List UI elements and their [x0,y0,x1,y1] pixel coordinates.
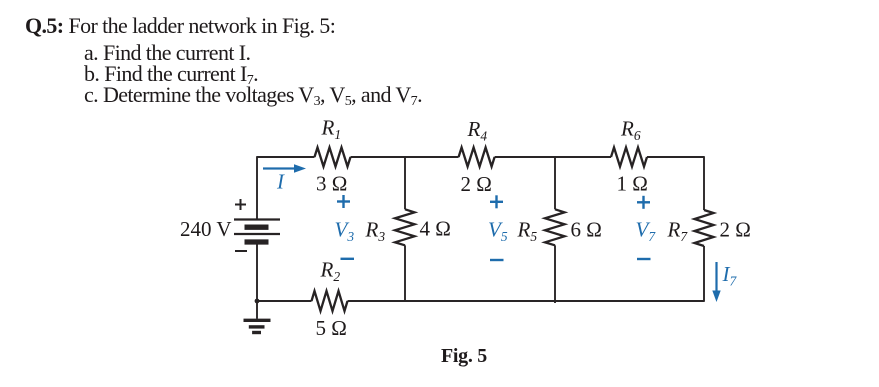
label minus of battery [235,250,247,252]
battery E (240 V source) [234,220,280,243]
svg-text:2 Ω: 2 Ω [720,218,751,242]
wire R3 branch lower [404,245,406,301]
wire top rail node B to top-right corner [647,156,704,158]
svg-text:4 Ω: 4 Ω [420,217,451,241]
label plus of V7 [637,196,650,209]
resistor R4 [459,148,495,167]
svg-text:5 Ω: 5 Ω [316,316,347,340]
wire left branch lower (source bottom to ground junction) [256,245,258,302]
problem statement line 1 [25,15,335,37]
wire bottom rail left of R2 [257,300,312,302]
resistor R6 [611,148,647,167]
label minus of V3 [341,258,355,260]
wire R5 branch lower [554,245,556,303]
figure caption [441,345,487,367]
svg-text:I: I [276,170,285,194]
svg-text:1 Ω: 1 Ω [617,172,648,196]
wire R3 branch upper [404,157,406,209]
svg-text:3 Ω: 3 Ω [316,172,347,196]
svg-text:V5: V5 [488,218,508,245]
node: ground junction dot [255,299,260,304]
svg-text:R5: R5 [517,218,538,245]
wire R5 branch upper [554,157,556,209]
wire right branch upper [703,156,705,210]
svg-text:240 V: 240 V [180,217,232,241]
wire top rail R1 to node A [351,156,459,158]
resistor R2 [312,291,348,311]
svg-text:V7: V7 [636,218,657,245]
label plus of battery [235,199,246,210]
wire ground stem [256,301,258,319]
svg-text:R3: R3 [365,218,386,245]
wire top rail left segment [257,156,315,158]
label minus of V7 [637,258,651,260]
svg-text:R2: R2 [320,258,341,285]
svg-text:V3: V3 [335,218,355,245]
resistor R3 [395,209,415,245]
svg-text:R7: R7 [667,218,689,245]
label plus of V5 [490,195,503,208]
resistor R7 [695,210,714,246]
wire top rail node A to node B [495,156,611,158]
svg-text:R4: R4 [467,117,488,144]
svg-text:R1: R1 [321,116,342,143]
current arrow I7 [712,262,720,302]
label plus of V3 [337,195,350,208]
svg-text:R6: R6 [620,117,641,144]
wire right branch lower [703,246,705,302]
resistor R1 [315,148,351,167]
problem item c [84,84,422,106]
wire left branch upper (source top) [256,156,258,219]
problem item a [84,42,250,64]
label minus of V5 [490,259,504,261]
svg-text:I7: I7 [722,262,738,289]
ground [244,320,271,332]
wire bottom rail right of R2 [348,300,705,302]
problem item b [84,63,258,85]
resistor R5 [545,209,565,245]
svg-text:6 Ω: 6 Ω [571,218,602,242]
svg-text:2 Ω: 2 Ω [461,172,492,196]
current arrow I [263,164,306,172]
